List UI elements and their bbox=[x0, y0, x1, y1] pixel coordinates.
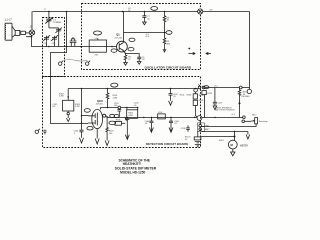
capacitor C107 bbox=[213, 88, 223, 107]
wire Q1 collector bbox=[123, 12, 125, 43]
svg-text:C108: C108 bbox=[181, 128, 186, 130]
wire right bus bbox=[249, 12, 251, 90]
capacitor C5 bbox=[70, 39, 73, 47]
svg-text:.05: .05 bbox=[173, 96, 176, 98]
feedthrough circle top wire bbox=[198, 9, 203, 14]
capacitor C7 bbox=[142, 12, 150, 21]
ground C7 bbox=[143, 21, 147, 25]
note right top bbox=[209, 9, 213, 11]
svg-text:PHONES: PHONES bbox=[242, 96, 251, 98]
lead and circle below box bbox=[67, 111, 69, 112]
wire det mid rail2 bbox=[109, 117, 196, 119]
capacitor C109 arrow chain bbox=[169, 89, 178, 101]
battery B101 bbox=[185, 131, 201, 147]
svg-text:.05: .05 bbox=[174, 123, 177, 125]
arrow R4 bottom bbox=[163, 47, 166, 52]
drain circle Q101 bbox=[103, 114, 106, 117]
note above wire bbox=[128, 8, 131, 12]
resistor R4 bbox=[163, 33, 171, 47]
svg-text:.05: .05 bbox=[134, 105, 137, 107]
svg-text:TUNING: TUNING bbox=[53, 22, 62, 24]
wire top bus bbox=[33, 11, 250, 13]
title block bbox=[115, 158, 157, 174]
trimmer capacitor C3 bbox=[43, 35, 50, 45]
svg-text:3.3M: 3.3M bbox=[75, 106, 80, 108]
resistor R102 bbox=[59, 89, 68, 101]
resistor R107 bbox=[106, 118, 115, 136]
svg-text:+1.5: +1.5 bbox=[231, 114, 235, 116]
wire row3 pot return bbox=[202, 124, 257, 127]
svg-text:R104: R104 bbox=[180, 95, 185, 97]
phones jack J101 bbox=[242, 89, 252, 98]
inductor L101 box bbox=[158, 112, 166, 119]
svg-text:MODEL HD-1250: MODEL HD-1250 bbox=[120, 170, 145, 174]
capacitor C105 bbox=[145, 118, 154, 128]
svg-text:417-801: 417-801 bbox=[96, 103, 103, 105]
svg-text:C1: C1 bbox=[44, 9, 46, 11]
chain R109 D101 bbox=[187, 88, 205, 117]
ground Q1 emitter bbox=[124, 61, 128, 65]
svg-text:470K: 470K bbox=[128, 115, 133, 117]
oval labels Q101 bbox=[84, 109, 90, 113]
oscillator board dashed box bbox=[82, 4, 201, 70]
capacitor C107b bbox=[125, 118, 129, 135]
capacitor C108 bbox=[181, 125, 190, 131]
capacitor C101 bbox=[114, 103, 121, 117]
detection board dashed box bbox=[43, 77, 201, 148]
ground tick bbox=[125, 118, 128, 121]
ground C9 bbox=[137, 60, 141, 64]
wire row2 wiper bbox=[242, 120, 245, 123]
svg-text:L8: L8 bbox=[95, 38, 97, 40]
wire row1 bbox=[202, 117, 243, 119]
circle node Q102 bbox=[197, 116, 202, 121]
wire battery to meter bbox=[201, 136, 234, 138]
ground meter bbox=[231, 149, 235, 156]
trimmer capacitor C4 bbox=[51, 35, 58, 45]
wire J1 sleeve down and right bbox=[26, 35, 89, 46]
tuning cap dashed enclosure bbox=[43, 18, 65, 77]
capacitor C106 bbox=[169, 118, 179, 128]
box R105 bbox=[127, 108, 138, 119]
ground Q101 source bbox=[95, 139, 99, 145]
jack tie point left bbox=[59, 61, 64, 66]
meter M101 bbox=[219, 140, 248, 149]
wire top rail det bbox=[68, 88, 198, 90]
svg-text:L101: L101 bbox=[158, 112, 162, 114]
oval label top wire bbox=[151, 6, 158, 10]
wire trimmer feeds bbox=[47, 34, 59, 47]
svg-text:417-201: 417-201 bbox=[115, 37, 123, 39]
coil L1-L7 bbox=[5, 18, 12, 41]
ground row4 bbox=[246, 132, 250, 140]
oval pin label E bbox=[128, 48, 134, 51]
wire collector node row bbox=[124, 32, 167, 34]
resistor R110 bbox=[202, 91, 213, 118]
wire row4 bbox=[202, 131, 248, 133]
oval pin label C bbox=[129, 38, 135, 41]
jack tie point right bbox=[86, 61, 91, 66]
svg-text:R112: R112 bbox=[252, 114, 256, 116]
wire drain rail1 bbox=[101, 107, 138, 109]
wire base row bbox=[89, 46, 117, 48]
resistor R106 bbox=[115, 120, 125, 126]
jack J1 bbox=[29, 25, 34, 36]
svg-text:R106: R106 bbox=[116, 120, 121, 122]
svg-text:.05: .05 bbox=[145, 123, 148, 125]
choke RFC box bbox=[89, 38, 106, 57]
oval node label bbox=[166, 31, 172, 35]
svg-text:100: 100 bbox=[114, 105, 117, 107]
wire Q1 emitter bbox=[123, 51, 125, 55]
box C102 bbox=[53, 100, 81, 111]
svg-text:METER: METER bbox=[240, 145, 248, 147]
oval label 9 bbox=[111, 83, 118, 87]
svg-text:L1-L7: L1-L7 bbox=[5, 18, 12, 22]
switch SW101B contacts bbox=[197, 120, 210, 131]
oval label RFC bbox=[94, 31, 102, 35]
resistor R3 bbox=[163, 12, 170, 33]
svg-text:HEATHKIT®: HEATHKIT® bbox=[123, 162, 142, 166]
trimmer capacitor C2 top bbox=[49, 28, 62, 34]
resistor R101 bbox=[106, 89, 118, 108]
svg-text:Sensitivity: Sensitivity bbox=[259, 120, 268, 123]
capacitor C6 bbox=[71, 37, 76, 46]
wire vertical branch x66.5 bbox=[66, 12, 68, 47]
svg-text:BATT TEST POSITION: BATT TEST POSITION bbox=[215, 109, 235, 112]
resistor R2 bbox=[124, 55, 132, 61]
wire feedback loop down-left bbox=[51, 47, 82, 124]
wire G1 G2 column bbox=[81, 89, 83, 124]
feedthrough circle C101 bbox=[118, 106, 121, 109]
wire J1 top to bus bbox=[31, 12, 33, 30]
wire coil leads bbox=[12, 26, 15, 37]
phone jack bottom left bbox=[35, 129, 47, 134]
svg-text:Q1: Q1 bbox=[116, 33, 120, 37]
svg-text:OSCILLATOR CIRCUIT BOARD: OSCILLATOR CIRCUIT BOARD bbox=[145, 66, 192, 70]
transistor Q1 bbox=[115, 33, 128, 52]
capacitor C1 TUNING bbox=[45, 12, 61, 28]
switch SW101A bbox=[198, 85, 207, 89]
mechanical link wavy bbox=[64, 60, 88, 62]
connector plug bbox=[15, 30, 20, 35]
svg-text:3.3M: 3.3M bbox=[59, 96, 64, 98]
resistor R111 bbox=[238, 88, 248, 99]
wire +9.2 row bbox=[207, 87, 239, 89]
interconnect arrows bbox=[189, 52, 196, 54]
svg-text:M101: M101 bbox=[219, 140, 224, 142]
voltage note bbox=[145, 34, 150, 38]
potentiometer R112 bbox=[251, 114, 267, 124]
note above wire bbox=[44, 9, 46, 11]
float label bbox=[180, 95, 185, 97]
capacitor C104 bbox=[74, 124, 84, 135]
capacitor C9 bbox=[137, 56, 145, 62]
transistor Q101 bbox=[88, 100, 104, 139]
wire emitter to C9 bbox=[126, 54, 140, 56]
svg-text:2.2M: 2.2M bbox=[113, 98, 118, 100]
oval label near chain bbox=[204, 86, 209, 89]
label C103 bbox=[134, 103, 139, 107]
note SW101 bbox=[215, 107, 235, 111]
oval pin label B bbox=[111, 49, 117, 52]
svg-text:DETECTION CIRCUIT BOARD: DETECTION CIRCUIT BOARD bbox=[146, 142, 188, 146]
